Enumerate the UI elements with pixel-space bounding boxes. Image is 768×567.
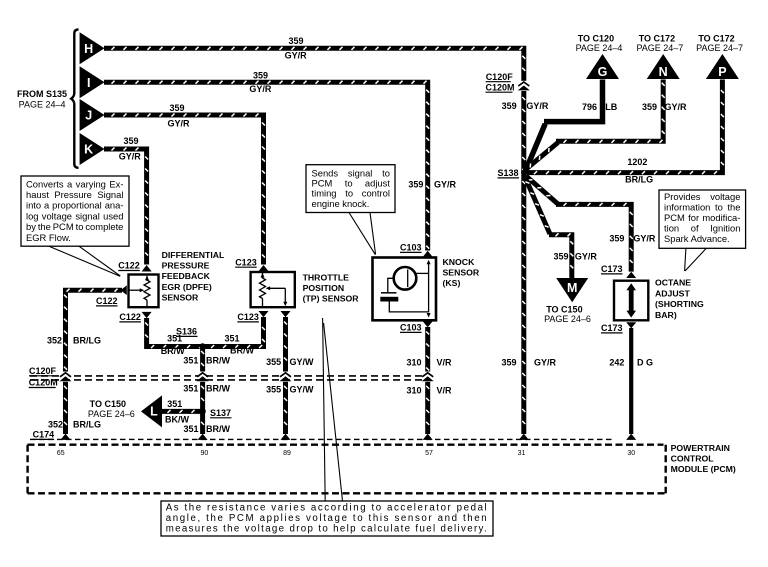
svg-text:PAGE 24–7: PAGE 24–7	[636, 43, 683, 53]
connector arrow G	[586, 54, 619, 79]
svg-text:359: 359	[123, 136, 138, 146]
svg-text:PAGE 24–4: PAGE 24–4	[19, 100, 66, 110]
PCM pin 30 fork	[626, 434, 636, 440]
svg-text:V/R: V/R	[436, 386, 452, 396]
PCM box dashed border	[28, 444, 664, 446]
svg-text:SENSOR: SENSOR	[162, 293, 199, 303]
note box: Converts a varying Exhaust Pressure Signal	[21, 176, 129, 276]
svg-text:TO C120: TO C120	[578, 33, 614, 43]
svg-text:359: 359	[408, 180, 423, 190]
knock sensor box C103	[373, 258, 437, 321]
svg-text:796: 796	[582, 102, 597, 112]
svg-text:C120M: C120M	[29, 378, 58, 388]
svg-text:351: 351	[167, 399, 182, 409]
TP potentiometer element	[260, 278, 266, 299]
svg-text:GY/W: GY/W	[290, 357, 315, 367]
svg-text:BR/LG: BR/LG	[73, 420, 101, 430]
svg-text:359: 359	[642, 102, 657, 112]
svg-text:BR/LG: BR/LG	[625, 175, 653, 185]
wire 352 BR/LG from C122 to connector	[64, 289, 122, 372]
svg-text:PAGE 24–6: PAGE 24–6	[544, 314, 591, 324]
brace from S135	[71, 30, 78, 168]
DPFE wiper arrow	[129, 289, 141, 291]
svg-text:BR/W: BR/W	[230, 346, 254, 356]
connector arrow M	[556, 278, 588, 302]
svg-text:D G: D G	[637, 358, 653, 368]
svg-text:89: 89	[283, 450, 291, 457]
knock sensor capacitor	[388, 278, 394, 293]
svg-text:S136: S136	[176, 327, 197, 337]
svg-text:BR/W: BR/W	[206, 424, 230, 434]
svg-text:KNOCK: KNOCK	[443, 257, 476, 267]
svg-text:intoaproportionalana-: intoaproportionalana-	[26, 200, 123, 211]
svg-text:J: J	[85, 109, 92, 123]
svg-text:TO C150: TO C150	[90, 399, 126, 409]
svg-text:(SHORTING: (SHORTING	[655, 299, 704, 309]
wire 359 GY/R from K to DPFE sensor	[104, 148, 148, 265]
svg-text:C123: C123	[237, 312, 259, 322]
TP sensor box C123	[251, 272, 295, 307]
svg-text:359: 359	[502, 101, 517, 111]
svg-text:P: P	[718, 65, 726, 79]
svg-text:engine knock.: engine knock.	[312, 198, 370, 209]
wire 359 GY/R from H to main vertical	[104, 47, 525, 82]
svg-text:bythePCMtocomplete: bythePCMtocomplete	[26, 221, 123, 232]
svg-text:POWERTRAIN: POWERTRAIN	[671, 443, 730, 453]
svg-text:ADJUST: ADJUST	[655, 288, 690, 298]
svg-text:C120M: C120M	[486, 82, 515, 92]
svg-text:31: 31	[518, 450, 526, 457]
note box: Provides voltage information	[659, 190, 746, 271]
svg-text:BR/W: BR/W	[206, 384, 230, 394]
connector C123 top fork	[259, 265, 269, 271]
wire 351 BK/W from L arrow to S137	[162, 410, 203, 413]
svg-text:THROTTLE: THROTTLE	[303, 272, 350, 282]
svg-text:C103: C103	[400, 323, 422, 333]
svg-text:310: 310	[406, 386, 421, 396]
wire 359 GY/R to N arrow	[556, 80, 665, 143]
svg-text:GY/R: GY/R	[526, 101, 549, 111]
svg-text:BR/LG: BR/LG	[73, 336, 101, 346]
wire 796 LB to G arrow	[544, 80, 603, 122]
svg-text:SENSOR: SENSOR	[443, 268, 480, 278]
connector arrow N	[647, 54, 680, 79]
svg-text:351: 351	[183, 384, 198, 394]
svg-text:S137: S137	[210, 408, 231, 418]
wire 242 DG octane adjust to PCM pin 30	[629, 328, 633, 434]
svg-text:C123: C123	[235, 257, 257, 267]
svg-text:310: 310	[406, 358, 421, 368]
wire 359 GY/R splice to N (diagonal)	[526, 143, 558, 170]
wire 359 GY/R to M arrow	[549, 233, 573, 278]
svg-text:C122: C122	[118, 261, 140, 271]
svg-text:PAGE 24–6: PAGE 24–6	[88, 409, 135, 419]
TP wiper arrow	[268, 287, 285, 289]
DPFE potentiometer element	[144, 280, 150, 300]
svg-text:M: M	[567, 281, 577, 295]
svg-text:ConvertsavaryingEx-: ConvertsavaryingEx-	[26, 178, 123, 189]
svg-text:haustPressureSignal: haustPressureSignal	[26, 189, 123, 200]
connector C103 bottom fork	[423, 321, 433, 327]
svg-text:G: G	[598, 65, 608, 79]
wire 796 LB splice to G (diagonal)	[525, 124, 545, 172]
svg-text:C122: C122	[119, 312, 141, 322]
svg-text:V/R: V/R	[436, 358, 452, 368]
PCM inner thin dashed line	[30, 438, 613, 440]
PCM pin 31 fork	[519, 434, 529, 440]
svg-text:N: N	[659, 65, 668, 79]
svg-text:measures the voltage drop to h: measures the voltage drop to help calcul…	[166, 523, 487, 534]
connector C103 top fork	[423, 251, 433, 257]
svg-text:DIFFERENTIAL: DIFFERENTIAL	[162, 250, 225, 260]
svg-text:L: L	[150, 405, 158, 419]
PCM pin 65 fork	[61, 434, 71, 440]
svg-text:FEEDBACK: FEEDBACK	[162, 271, 211, 281]
svg-text:359: 359	[169, 103, 184, 113]
svg-text:H: H	[84, 42, 93, 56]
knock sensor piezo circle	[394, 267, 417, 290]
octane adjust box C173	[614, 281, 648, 321]
svg-text:GY/R: GY/R	[575, 252, 598, 262]
svg-text:As the resistance varies accor: As the resistance varies according to ac…	[166, 502, 487, 513]
svg-text:GY/R: GY/R	[285, 51, 308, 61]
svg-text:(KS): (KS)	[443, 278, 461, 288]
svg-text:Spark Advance.: Spark Advance.	[664, 233, 730, 244]
svg-text:351: 351	[183, 356, 198, 366]
wire 355 GY/W TP sensor to connector	[284, 317, 287, 372]
svg-text:C103: C103	[400, 243, 422, 253]
svg-text:TO C172: TO C172	[698, 33, 734, 43]
svg-text:OCTANE: OCTANE	[655, 277, 691, 287]
splice S138	[521, 170, 527, 176]
svg-text:355: 355	[266, 357, 281, 367]
svg-text:359: 359	[288, 36, 303, 46]
wire 310 V/R connector to PCM pin 57	[426, 381, 429, 434]
svg-text:PAGE 24–7: PAGE 24–7	[696, 43, 743, 53]
C120F/C120M inline connector dashed lines	[30, 375, 426, 377]
connector C123 bottom fork right	[281, 311, 291, 317]
svg-text:PCMformodifica-: PCMformodifica-	[664, 212, 740, 223]
svg-text:351: 351	[183, 424, 198, 434]
connector C123 bottom fork left	[259, 311, 269, 317]
svg-text:FROM S135: FROM S135	[17, 89, 67, 99]
svg-text:BK/W: BK/W	[165, 415, 189, 425]
connector C173 top fork	[626, 272, 636, 278]
svg-text:242: 242	[609, 358, 624, 368]
wire 351 BR/W S136 to connector	[201, 347, 204, 372]
svg-text:359: 359	[553, 252, 568, 262]
wire 359 GY/R main vertical below C120 connector	[522, 91, 525, 435]
connector C173 bottom fork	[626, 322, 636, 328]
note box: As the resistance varies	[161, 318, 493, 536]
svg-text:1202: 1202	[627, 157, 647, 167]
C120 connector on main 359 wire	[521, 81, 528, 91]
svg-text:57: 57	[425, 450, 433, 457]
svg-text:GY/R: GY/R	[167, 118, 190, 128]
svg-text:PRESSURE: PRESSURE	[162, 261, 210, 271]
connector C122 left fork	[121, 285, 127, 295]
svg-text:GY/R: GY/R	[249, 84, 272, 94]
svg-text:GY/R: GY/R	[119, 152, 142, 162]
svg-text:MODULE (PCM): MODULE (PCM)	[671, 464, 736, 474]
PCM pin 57 fork	[423, 434, 433, 440]
svg-text:351: 351	[224, 334, 239, 344]
splice S136	[199, 343, 205, 349]
PCM pin 90 fork	[198, 434, 208, 440]
wire 351 BR/W connector to PCM pin 90	[201, 381, 204, 434]
svg-text:359: 359	[609, 234, 624, 244]
svg-text:C120F: C120F	[486, 72, 514, 82]
wire 359 GY/R from I to knock sensor	[104, 81, 429, 251]
connector C122 top fork	[142, 265, 152, 272]
svg-text:C173: C173	[601, 323, 623, 333]
svg-text:(TP) SENSOR: (TP) SENSOR	[303, 294, 360, 304]
svg-text:359: 359	[253, 70, 268, 80]
svg-text:65: 65	[57, 450, 65, 457]
wire 351 BR/W C122 to S136 to TP sensor	[145, 317, 265, 348]
svg-text:GY/R: GY/R	[633, 234, 656, 244]
connector arrow J	[80, 99, 105, 131]
svg-text:C120F: C120F	[29, 366, 57, 376]
svg-text:C122: C122	[96, 296, 118, 306]
knock sensor internal wiring	[414, 272, 429, 274]
C120 connector on 310 wire	[424, 372, 431, 382]
svg-text:359: 359	[501, 358, 516, 368]
note box: Sends signal to PCM	[306, 165, 395, 255]
svg-text:BAR): BAR)	[655, 310, 677, 320]
svg-text:I: I	[87, 76, 90, 90]
svg-text:GY/R: GY/R	[664, 102, 687, 112]
C120 connector on 355 wire	[282, 372, 289, 382]
splice S137	[199, 408, 205, 414]
svg-text:LB: LB	[605, 102, 617, 112]
svg-text:C174: C174	[33, 430, 55, 440]
svg-text:355: 355	[266, 385, 281, 395]
wire 352 BR/LG connector to PCM pin 65	[64, 381, 67, 434]
svg-text:C173: C173	[601, 264, 623, 274]
connector arrow H	[80, 32, 105, 64]
svg-text:352: 352	[48, 420, 63, 430]
DPFE sensor box C122	[129, 275, 159, 308]
svg-text:90: 90	[201, 450, 209, 457]
svg-text:informationtothe: informationtothe	[664, 202, 740, 213]
svg-text:POSITION: POSITION	[303, 283, 345, 293]
connector arrow K	[80, 133, 105, 165]
svg-text:TO C172: TO C172	[639, 33, 675, 43]
svg-text:GY/R: GY/R	[434, 180, 457, 190]
svg-text:K: K	[84, 143, 93, 157]
wire 359 GY/R splice to M (diagonal)	[525, 177, 550, 234]
C120 connector on 351 wire	[199, 372, 206, 382]
svg-text:30: 30	[627, 450, 635, 457]
svg-text:BR/W: BR/W	[161, 346, 185, 356]
octane adjust shorting bar	[629, 288, 634, 313]
wire 310 V/R knock sensor to connector	[426, 327, 429, 372]
C120 connector on 352 wire	[62, 372, 69, 382]
connector arrow P	[706, 54, 739, 79]
wire 355 GY/W connector to PCM pin 89	[284, 381, 287, 434]
svg-text:EGR (DPFE): EGR (DPFE)	[162, 282, 212, 292]
connector arrow I	[80, 66, 105, 98]
wire 1202 BR/LG splice to P arrow	[527, 80, 724, 175]
svg-text:EGR Flow.: EGR Flow.	[26, 232, 71, 243]
svg-text:352: 352	[47, 336, 62, 346]
wire 359 GY/R splice to octane adjust (diagonal)	[526, 176, 558, 204]
svg-text:GY/R: GY/R	[534, 358, 557, 368]
connector C122 bottom fork	[142, 312, 152, 318]
svg-text:GY/W: GY/W	[290, 385, 315, 395]
svg-text:PAGE 24–4: PAGE 24–4	[576, 43, 623, 53]
svg-text:CONTROL: CONTROL	[671, 454, 715, 464]
connector arrow L	[141, 395, 162, 427]
wire 359 GY/R to C173 octane adjust	[556, 203, 633, 272]
wire 359 GY/R from J to TP sensor	[104, 114, 265, 265]
PCM pin 89 fork	[281, 434, 291, 440]
svg-text:BR/W: BR/W	[206, 356, 230, 366]
svg-text:S138: S138	[498, 168, 519, 178]
